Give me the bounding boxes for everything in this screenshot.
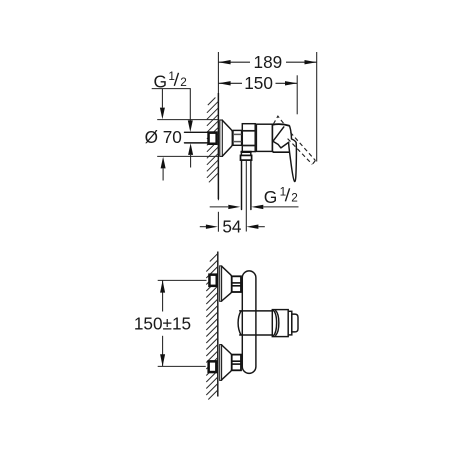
dimension Ø70 extension lines [157, 119, 218, 121]
handle blade (side view) [289, 126, 297, 182]
dashed handle peak (raised position) [273, 116, 284, 124]
shower outlet pipe (vertical) [241, 160, 243, 209]
lower wall connection square (top view) [207, 360, 217, 373]
union nut (side view) [233, 130, 242, 145]
handle lever inner edges [273, 127, 289, 148]
cartridge end cap (top view) [292, 314, 298, 332]
dimension 150±15 [158, 279, 207, 281]
svg-text:2: 2 [291, 191, 298, 205]
svg-text:2: 2 [180, 75, 187, 89]
wall line side view [217, 52, 219, 200]
outlet elbow shoulder (thick) [241, 151, 252, 153]
leader arrow to outlet thread (from right) [251, 205, 263, 209]
svg-text:150: 150 [244, 73, 273, 93]
upper escutcheon (top view) [220, 266, 222, 301]
Ø70 upper arrow [161, 89, 163, 108]
pipe centre extension line [245, 160, 247, 231]
cartridge cylinder (top view) [238, 311, 241, 335]
escutcheon flange (side view) [220, 120, 223, 156]
wall hatching top view [206, 254, 218, 400]
outlet collar [241, 155, 252, 160]
cylinder curvature arcs [273, 310, 276, 336]
dimension 150 [296, 75, 298, 114]
wall hatching side view [207, 98, 219, 183]
wall connection square (side view) [207, 131, 217, 145]
svg-text:Ø 70: Ø 70 [145, 127, 182, 147]
label shelf + leader to supply thread [152, 89, 191, 122]
svg-text:1: 1 [280, 184, 287, 198]
outlet neck [240, 153, 242, 156]
outlet thread arrow (from left) [210, 206, 229, 208]
svg-text:189: 189 [254, 52, 283, 72]
dashed lever (open position) [290, 132, 315, 160]
lower union nut (top view) [232, 355, 241, 371]
svg-text:1: 1 [168, 69, 175, 83]
svg-text:54: 54 [222, 217, 242, 237]
svg-text:G: G [264, 187, 278, 207]
Ø70 lower arrow [161, 157, 166, 169]
dimension 189 [316, 52, 318, 162]
cartridge housing block (top view) [272, 310, 288, 337]
wall line top view [217, 252, 219, 397]
lower escutcheon (top view) [220, 345, 222, 381]
cartridge mid ring (top view) [288, 311, 292, 335]
valve body capsule (top view) [242, 271, 256, 374]
valve body block A (side view) [242, 124, 255, 152]
upper union nut (top view) [232, 276, 241, 292]
supply thread lower arrow [188, 143, 193, 155]
supply pipe (horizontal) [185, 131, 208, 133]
valve body block B / cartridge housing (side view) [256, 124, 272, 151]
escutcheon cone (side view) [222, 120, 232, 156]
dimension 54 [200, 226, 207, 228]
svg-text:150±15: 150±15 [134, 314, 191, 334]
handle hub (side view) [271, 125, 273, 152]
upper wall connection square (top view) [208, 273, 218, 287]
body bottom edge under handle hub [272, 150, 290, 153]
